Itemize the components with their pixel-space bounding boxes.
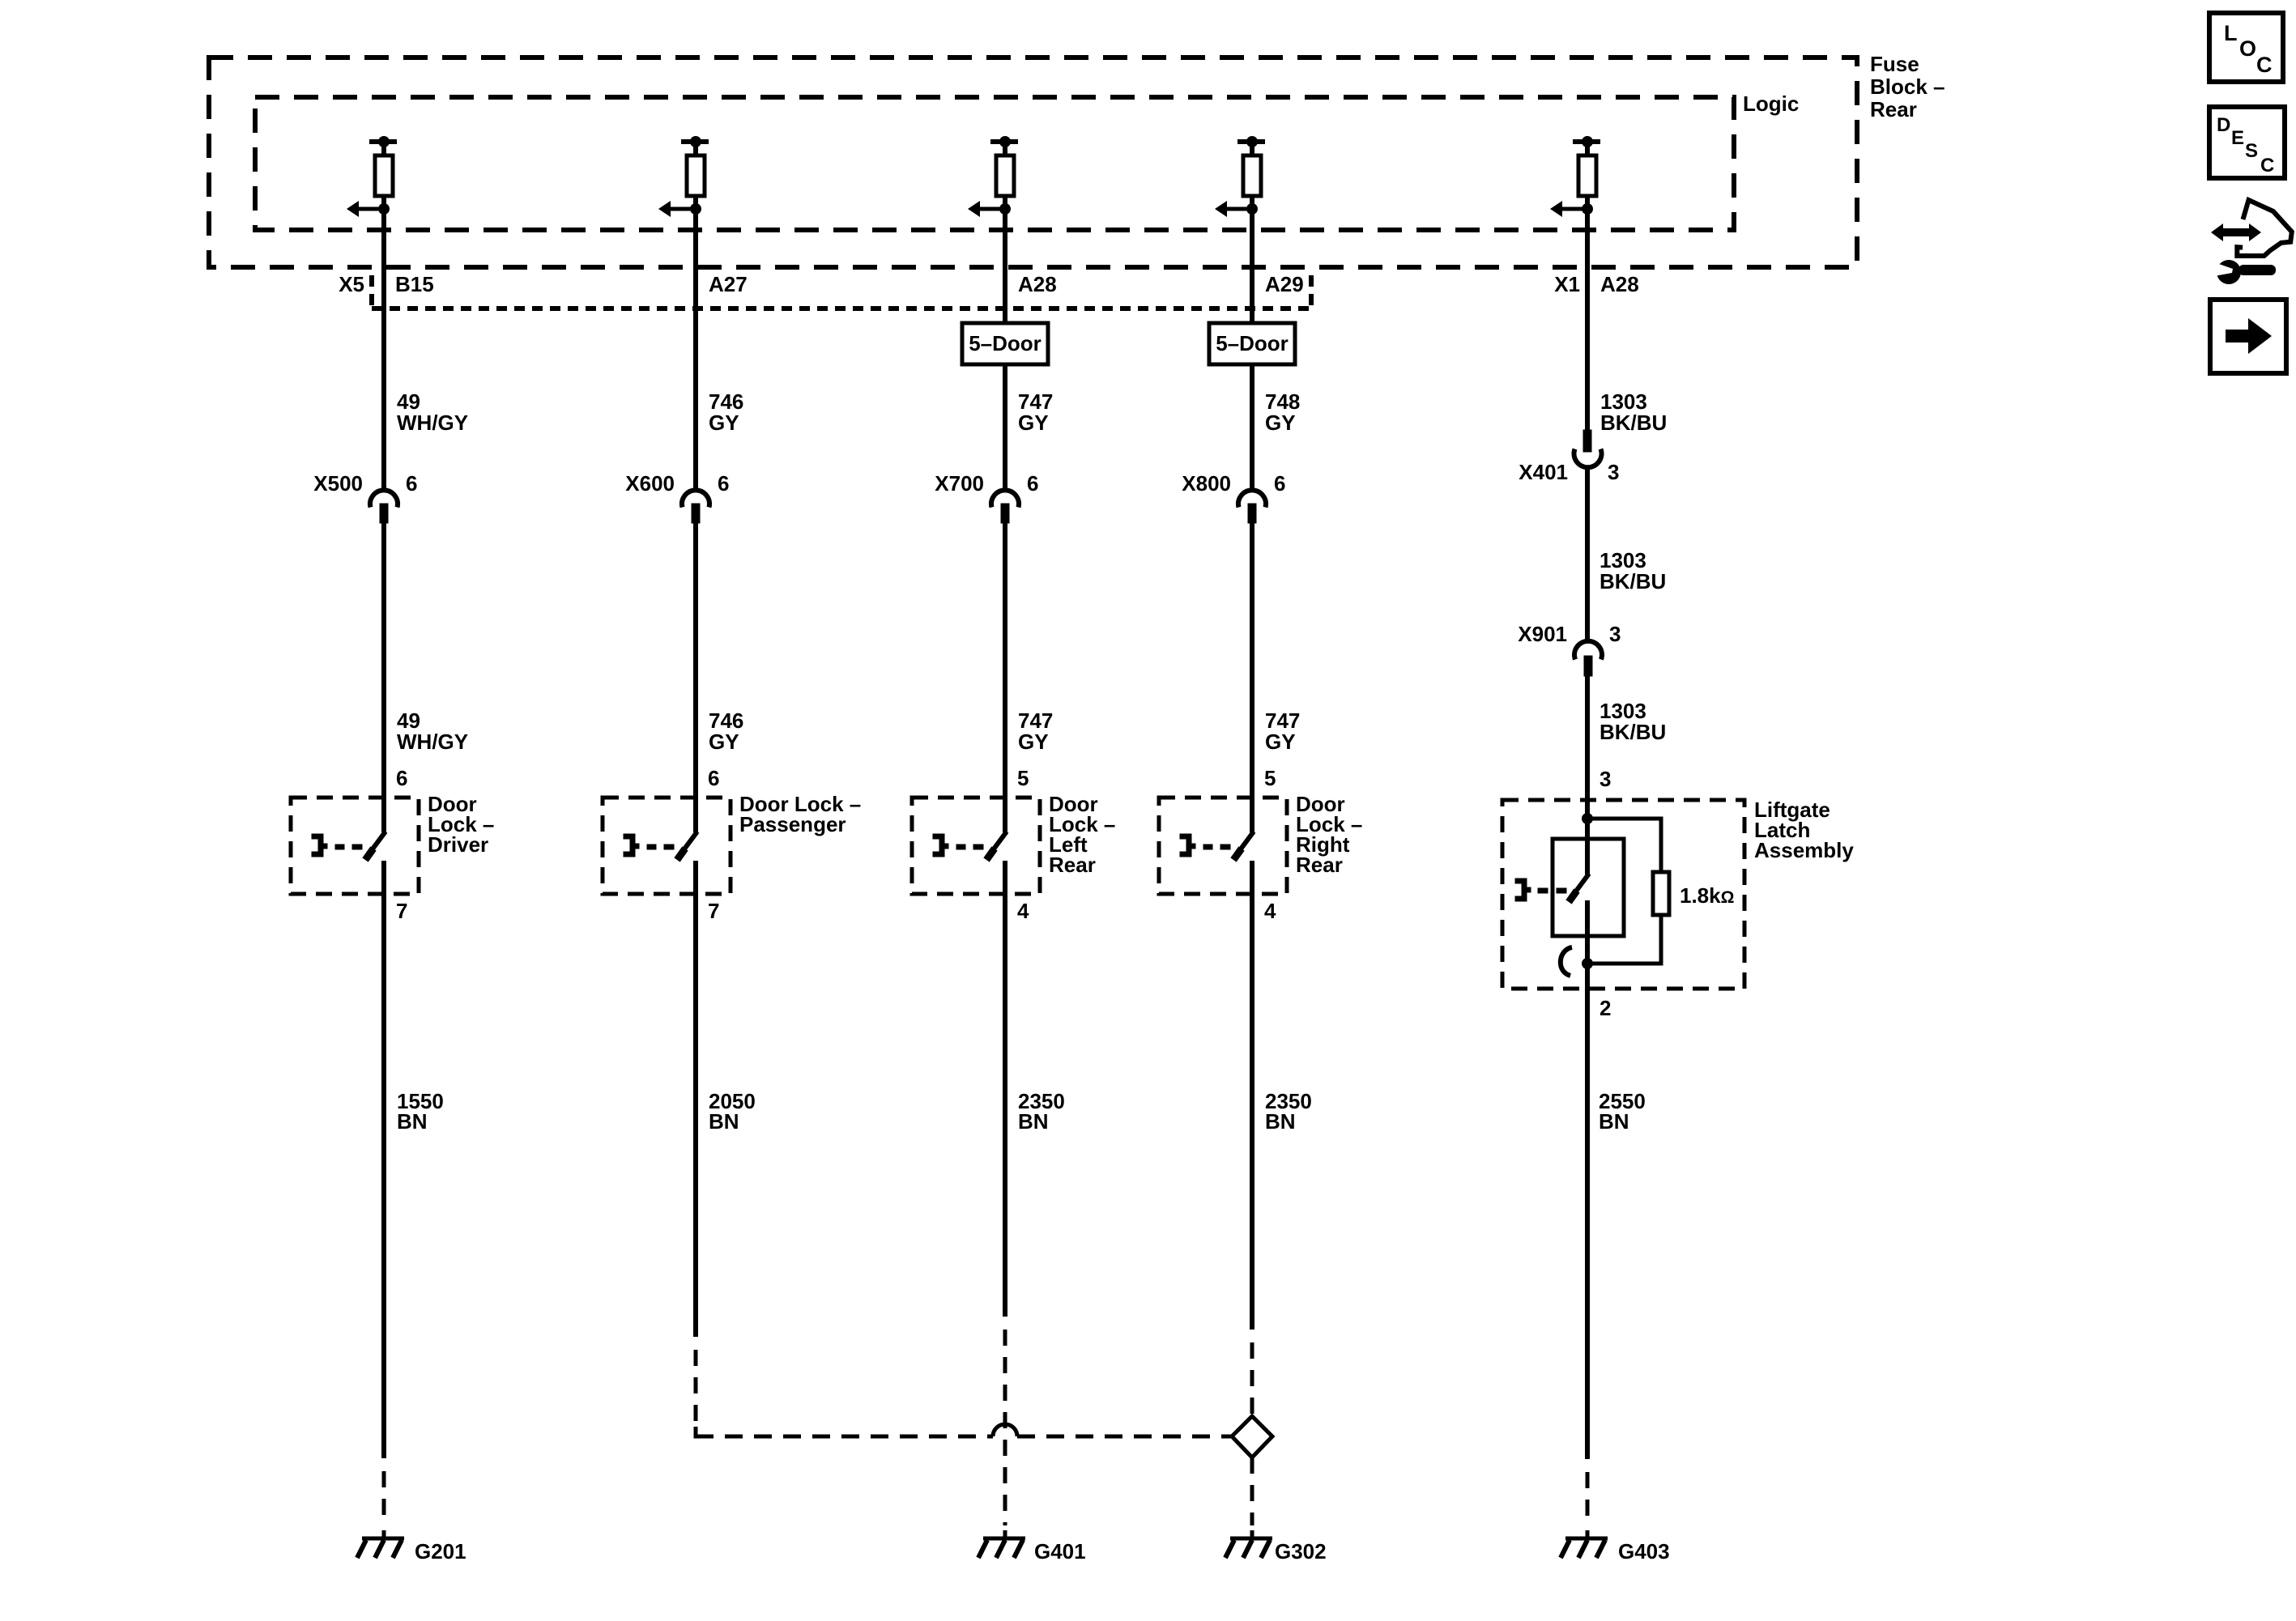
svg-text:L: L xyxy=(2224,21,2238,45)
svg-text:4: 4 xyxy=(1264,899,1276,923)
wire label 746 GY (lower) xyxy=(709,708,743,754)
icon forward arrow box xyxy=(2210,300,2286,373)
pin 4 (Door Lock - Right Rear) xyxy=(1264,899,1276,923)
fuse F5 output arrow and junction xyxy=(1550,201,1593,217)
svg-text:GY: GY xyxy=(709,730,739,754)
wire x=474 to door lock switch xyxy=(381,523,386,832)
fuse F1 output arrow and junction xyxy=(347,201,390,217)
pin A28 xyxy=(1018,272,1057,296)
svg-text:6: 6 xyxy=(1027,471,1038,496)
svg-text:3: 3 xyxy=(1600,767,1611,791)
svg-text:7: 7 xyxy=(396,899,407,923)
pin 6 (Door Lock - Passenger) xyxy=(708,766,719,790)
svg-text:X401: X401 xyxy=(1519,460,1568,484)
svg-text:BK/BU: BK/BU xyxy=(1600,720,1666,744)
svg-text:X500: X500 xyxy=(313,471,363,496)
svg-text:BN: BN xyxy=(397,1109,428,1134)
svg-text:A29: A29 xyxy=(1265,272,1304,296)
fuse F3 output arrow and junction xyxy=(968,201,1011,217)
wire label 49 WH/GY (upper) xyxy=(397,389,468,435)
wire 1550 BN below switch x=474 xyxy=(381,861,386,1458)
svg-text:BN: BN xyxy=(1265,1109,1296,1134)
svg-text:A28: A28 xyxy=(1018,272,1057,296)
wire label 747 GY (lower) xyxy=(1018,708,1053,754)
connector X800 pin 6 xyxy=(1182,471,1285,523)
svg-text:X901: X901 xyxy=(1518,622,1567,646)
svg-text:6: 6 xyxy=(406,471,417,496)
svg-text:C: C xyxy=(2260,155,2274,177)
liftgate latch assembly label xyxy=(1754,798,1854,862)
wire hop over col3 xyxy=(993,1424,1017,1436)
svg-text:G403: G403 xyxy=(1618,1539,1670,1564)
svg-text:X600: X600 xyxy=(625,471,675,496)
door lock label: Door Lock - Passenger xyxy=(739,792,861,836)
svg-text:BN: BN xyxy=(709,1109,739,1134)
latch switch box xyxy=(1553,839,1624,936)
svg-text:7: 7 xyxy=(708,899,719,923)
wire x=1546 to door lock switch xyxy=(1250,523,1254,832)
wire x=859 to door lock switch xyxy=(693,523,698,832)
wire from fuse at x=1241 down xyxy=(1003,212,1007,323)
pin 4 (Door Lock - Left Rear) xyxy=(1017,899,1029,923)
wire 1303 X401 to X901 xyxy=(1585,467,1590,642)
ground G401 xyxy=(978,1538,1025,1558)
svg-text:5: 5 xyxy=(1264,766,1276,790)
wire 1303 X901 to latch xyxy=(1585,676,1590,819)
wire label 2350 BN xyxy=(1018,1089,1065,1134)
wire label 2550 BN xyxy=(1599,1089,1646,1134)
svg-text:3: 3 xyxy=(1608,460,1619,484)
pin 5 (Door Lock - Right Rear) xyxy=(1264,766,1276,790)
svg-text:D: D xyxy=(2217,114,2230,136)
svg-text:B15: B15 xyxy=(395,272,434,296)
wire label 1303 BK/BU (middle) xyxy=(1600,548,1666,594)
svg-text:S: S xyxy=(2245,140,2258,162)
label Fuse Block - Rear xyxy=(1870,52,1945,121)
wire label 1550 BN xyxy=(397,1089,444,1134)
label X1 xyxy=(1554,272,1580,296)
pin 6 (Door Lock - Driver) xyxy=(396,766,407,790)
latch node junction top xyxy=(1582,786,1593,874)
fuse F4 xyxy=(1237,136,1265,212)
door lock label: Door Lock - Left Rear xyxy=(1049,792,1115,877)
svg-text:6: 6 xyxy=(718,471,729,496)
resistor 1.8k ohm xyxy=(1653,872,1669,915)
svg-text:Assembly: Assembly xyxy=(1754,838,1854,862)
door lock switch: Door Lock - Left Rear xyxy=(912,798,1040,894)
svg-text:Fuse: Fuse xyxy=(1870,52,1919,76)
svg-text:GY: GY xyxy=(1018,730,1049,754)
wire from fuse at x=474 down xyxy=(381,212,386,490)
connector X5 band separator right xyxy=(1309,275,1314,311)
ground label G201 xyxy=(415,1539,466,1564)
resistor branch wire xyxy=(1587,819,1661,872)
logic module inner dashed box xyxy=(255,97,1734,230)
svg-text:5–Door: 5–Door xyxy=(969,331,1042,355)
wire 2350 BN below switch x=1546 xyxy=(1250,861,1254,1330)
liftgate latch assembly dashed box xyxy=(1502,800,1744,989)
icon body direction (glove outline, double arrow, wrench) xyxy=(2211,200,2292,284)
wire from fuse at x=1546 down xyxy=(1250,212,1254,323)
svg-text:Block –: Block – xyxy=(1870,74,1945,99)
svg-text:BN: BN xyxy=(1599,1109,1629,1134)
svg-text:GY: GY xyxy=(709,411,739,435)
pin A29 xyxy=(1265,272,1304,296)
fuse F5 xyxy=(1573,136,1600,212)
ground label G302 xyxy=(1275,1539,1327,1564)
door lock switch: Door Lock - Driver xyxy=(291,798,419,894)
connector X600 pin 6 xyxy=(625,471,729,523)
icon LOC box xyxy=(2209,13,2283,82)
connector X401 pin 3 xyxy=(1519,430,1619,484)
svg-text:5–Door: 5–Door xyxy=(1216,331,1289,355)
5-Door option box xyxy=(1209,323,1295,364)
dashed wire to splice diamond xyxy=(1250,1342,1254,1418)
svg-text:GY: GY xyxy=(1265,411,1296,435)
dashed wire to G403 xyxy=(1586,1472,1590,1539)
door lock switch: Door Lock - Passenger xyxy=(603,798,731,894)
svg-text:GY: GY xyxy=(1018,411,1049,435)
svg-text:X5: X5 xyxy=(339,272,364,296)
dashed wire diamond to G302 xyxy=(1250,1457,1254,1539)
connector X500 pin 6 xyxy=(313,471,417,523)
svg-text:4: 4 xyxy=(1017,899,1029,923)
svg-text:X800: X800 xyxy=(1182,471,1231,496)
svg-text:5: 5 xyxy=(1017,766,1029,790)
svg-text:Logic: Logic xyxy=(1743,91,1799,116)
dashed ground bus horizontal xyxy=(696,1435,1232,1439)
latch switch blade xyxy=(1569,874,1589,902)
ground G302 xyxy=(1225,1538,1272,1558)
svg-text:X1: X1 xyxy=(1554,272,1580,296)
wire from fuse at x=1960 down xyxy=(1585,212,1590,430)
svg-text:Driver: Driver xyxy=(428,832,488,857)
svg-text:X700: X700 xyxy=(935,471,984,496)
connector X5 band bottom dotted line xyxy=(372,306,1311,311)
wire below 5-Door box x=1546 xyxy=(1250,364,1254,490)
pin B15 xyxy=(395,272,434,296)
svg-text:WH/GY: WH/GY xyxy=(397,411,468,435)
dashed wire to G401 xyxy=(1003,1330,1007,1539)
pin 7 (Door Lock - Driver) xyxy=(396,899,407,923)
fuse F1 xyxy=(369,136,397,212)
fuse F4 output arrow and junction xyxy=(1215,201,1258,217)
label X5 xyxy=(339,272,364,296)
connector X5 band separator left xyxy=(369,275,374,311)
icon DESC box xyxy=(2209,107,2285,178)
wire label 748 GY (upper) xyxy=(1265,389,1300,435)
svg-text:G401: G401 xyxy=(1034,1539,1086,1564)
connector X700 pin 6 xyxy=(935,471,1038,523)
svg-text:6: 6 xyxy=(708,766,719,790)
wire below 5-Door box x=1241 xyxy=(1003,364,1007,490)
ground label G403 xyxy=(1618,1539,1670,1564)
wire label 2050 BN xyxy=(709,1089,756,1134)
svg-text:Passenger: Passenger xyxy=(739,812,846,836)
pin 5 (Door Lock - Left Rear) xyxy=(1017,766,1029,790)
wire x=1241 to door lock switch xyxy=(1003,523,1007,832)
wire label 747 GY (lower) xyxy=(1265,708,1300,754)
wire 2350 BN below switch x=1241 xyxy=(1003,861,1007,1317)
pin 2 (liftgate latch) xyxy=(1600,996,1611,1020)
svg-text:6: 6 xyxy=(1274,471,1285,496)
svg-text:A27: A27 xyxy=(709,272,748,296)
svg-text:E: E xyxy=(2231,127,2244,149)
pin 3 (liftgate latch) xyxy=(1600,767,1611,791)
connector X901 pin 3 xyxy=(1518,622,1621,676)
svg-text:2: 2 xyxy=(1600,996,1611,1020)
wire label 1303 BK/BU (lower) xyxy=(1600,699,1666,744)
svg-text:Rear: Rear xyxy=(1049,853,1096,877)
latch mechanical hook xyxy=(1561,947,1572,976)
svg-text:G201: G201 xyxy=(415,1539,466,1564)
wire label 49 WH/GY (lower) xyxy=(397,708,468,754)
door lock label: Door Lock - Driver xyxy=(428,792,494,857)
5-Door option box xyxy=(962,323,1048,364)
wire label 2350 BN xyxy=(1265,1089,1312,1134)
wire 2050 BN below switch x=859 xyxy=(693,861,698,1337)
svg-text:GY: GY xyxy=(1265,730,1296,754)
fuse F2 xyxy=(681,136,709,212)
svg-text:Rear: Rear xyxy=(1296,853,1343,877)
ground G201 xyxy=(357,1538,404,1558)
fuse F2 output arrow and junction xyxy=(658,201,701,217)
dashed wire to G201 xyxy=(382,1471,386,1539)
svg-text:6: 6 xyxy=(396,766,407,790)
wire label 1303 BK/BU (upper) xyxy=(1600,389,1667,435)
dashed wire from passenger switch xyxy=(694,1350,698,1436)
svg-text:Rear: Rear xyxy=(1870,97,1917,121)
latch switch actuator bracket xyxy=(1515,879,1566,901)
svg-text:3: 3 xyxy=(1609,622,1621,646)
ground label G401 xyxy=(1034,1539,1086,1564)
door lock label: Door Lock - Right Rear xyxy=(1296,792,1362,877)
pin A28 (fuse block X1) xyxy=(1600,272,1639,296)
splice diamond xyxy=(1232,1416,1272,1457)
fuse block - rear outer dashed box xyxy=(209,57,1857,267)
pin 7 (Door Lock - Passenger) xyxy=(708,899,719,923)
resistor branch wire lower xyxy=(1587,915,1661,964)
resistor label 1.8k ohm xyxy=(1680,883,1734,908)
ground G403 xyxy=(1561,1538,1608,1558)
svg-text:C: C xyxy=(2256,53,2273,77)
svg-text:G302: G302 xyxy=(1275,1539,1327,1564)
wire corner at passenger ground bend xyxy=(696,1427,710,1436)
svg-text:WH/GY: WH/GY xyxy=(397,730,468,754)
svg-text:BK/BU: BK/BU xyxy=(1600,569,1666,594)
svg-text:O: O xyxy=(2239,36,2256,61)
wire label 746 GY (upper) xyxy=(709,389,743,435)
svg-text:BK/BU: BK/BU xyxy=(1600,411,1667,435)
door lock switch: Door Lock - Right Rear xyxy=(1159,798,1287,894)
wire label 747 GY (upper) xyxy=(1018,389,1053,435)
svg-text:BN: BN xyxy=(1018,1109,1049,1134)
fuse F3 xyxy=(990,136,1018,212)
label Logic xyxy=(1743,91,1799,116)
latch lower wire and junction xyxy=(1582,900,1593,1459)
wire from fuse at x=859 down xyxy=(693,212,698,490)
svg-text:A28: A28 xyxy=(1600,272,1639,296)
pin A27 xyxy=(709,272,748,296)
